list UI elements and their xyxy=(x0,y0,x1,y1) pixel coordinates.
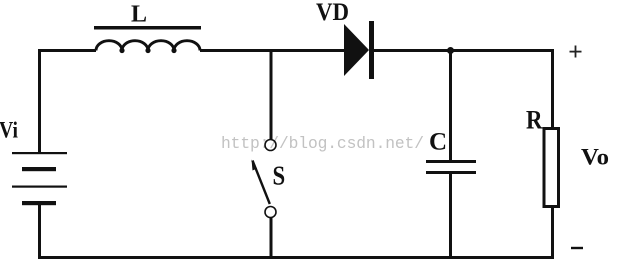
svg-text:R: R xyxy=(526,106,543,135)
svg-text:Vo: Vo xyxy=(581,145,609,171)
svg-text:Vi: Vi xyxy=(0,118,18,144)
svg-text:L: L xyxy=(131,2,147,28)
svg-text:C: C xyxy=(429,129,447,156)
svg-text:http://blog.csdn.net/: http://blog.csdn.net/ xyxy=(221,134,424,153)
svg-text:S: S xyxy=(273,161,286,191)
svg-text:VD: VD xyxy=(316,0,349,26)
